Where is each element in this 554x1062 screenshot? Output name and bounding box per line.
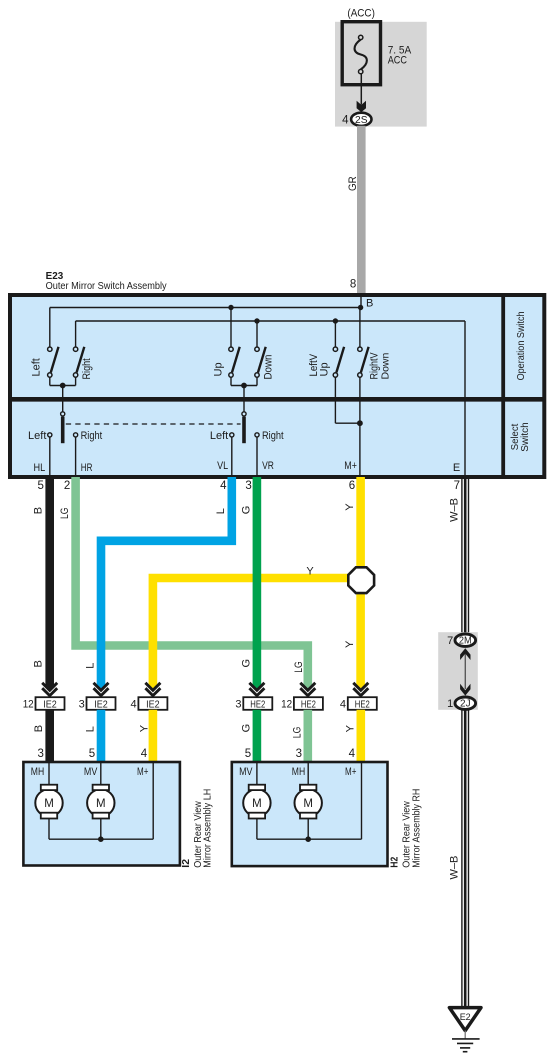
splice octagon <box>348 567 374 593</box>
svg-text:L: L <box>84 726 96 732</box>
pin name HL <box>34 462 46 474</box>
svg-text:IE2: IE2 <box>94 698 108 710</box>
svg-text:IE2: IE2 <box>146 698 160 710</box>
svg-text:12: 12 <box>23 699 34 711</box>
switch Left <box>30 347 58 377</box>
stub pin 5 <box>89 748 95 760</box>
pin 8 <box>350 278 356 290</box>
svg-text:MH: MH <box>292 766 305 778</box>
wire label B lower <box>33 660 45 667</box>
stub pin 5 right <box>245 748 251 760</box>
wire E pin from bus 2 <box>464 321 466 475</box>
label Select Switch <box>510 422 531 452</box>
wire label L upper <box>215 508 227 514</box>
pin name VL <box>217 460 228 472</box>
junction wire 2M to 2J <box>460 648 470 695</box>
connector HE2 c <box>340 697 377 710</box>
svg-text:LG: LG <box>59 508 71 520</box>
contact Left (VL) <box>210 430 234 475</box>
bus wire 1 <box>50 307 361 309</box>
pin name HR <box>81 462 93 474</box>
motor M vertical RH <box>243 785 270 819</box>
svg-text:3: 3 <box>37 748 43 760</box>
join Left/Right bottoms <box>50 377 76 412</box>
svg-text:8: 8 <box>350 278 356 290</box>
motor M vertical LH <box>87 785 114 819</box>
svg-text:M: M <box>44 798 54 810</box>
svg-text:2M: 2M <box>459 636 472 647</box>
svg-text:5: 5 <box>37 480 43 492</box>
svg-text:M: M <box>96 798 106 810</box>
svg-text:Mirror Assembly RH: Mirror Assembly RH <box>410 789 422 868</box>
svg-text:LG: LG <box>293 661 305 673</box>
switch assembly E23 label <box>46 270 168 292</box>
svg-text:4: 4 <box>342 114 349 126</box>
svg-text:M+: M+ <box>345 766 356 778</box>
svg-text:ACC: ACC <box>388 54 407 66</box>
connector arrow IE2 pin12 <box>42 683 57 696</box>
svg-text:Mirror Assembly LH: Mirror Assembly LH <box>202 789 214 868</box>
stub label Y left <box>139 724 151 732</box>
connector IE2 c <box>130 697 167 710</box>
svg-text:I2: I2 <box>180 859 192 868</box>
terminal M+ (RH) <box>345 766 356 778</box>
bus wire 2 <box>76 320 465 322</box>
label I2 <box>180 859 192 868</box>
connector arrow HE2 pin12 <box>300 683 315 696</box>
stub label Y right <box>344 724 356 732</box>
connector IE2 b <box>79 697 116 710</box>
pin number 2 <box>64 480 70 492</box>
connector arrow IE2 pin3 <box>94 683 109 696</box>
svg-text:Left: Left <box>30 358 42 376</box>
fuse 7.5A ACC <box>342 22 412 85</box>
svg-text:VL: VL <box>217 460 228 472</box>
node B entry <box>361 295 373 310</box>
wire label Y upper <box>344 503 356 511</box>
contact Right (VR) <box>255 430 284 475</box>
svg-text:MV: MV <box>84 766 98 778</box>
svg-text:IE2: IE2 <box>43 698 57 710</box>
connector 2S <box>351 113 371 126</box>
drop wires to switches <box>50 308 360 348</box>
arrow into 2S <box>357 101 366 112</box>
stub label B <box>33 725 45 732</box>
pin name M+ <box>344 460 357 472</box>
svg-text:HE2: HE2 <box>301 698 316 710</box>
svg-text:Right: Right <box>81 358 93 379</box>
svg-text:B: B <box>366 298 373 310</box>
svg-text:W–B: W–B <box>448 498 460 522</box>
svg-text:4: 4 <box>130 699 136 711</box>
svg-text:3: 3 <box>296 748 302 760</box>
connector IE2 a <box>23 697 65 710</box>
wire RightV bottom to M+ pin <box>359 377 361 475</box>
wire label L lower <box>84 663 96 669</box>
wire B (HL to IE2) <box>45 477 54 691</box>
stub label G <box>240 724 252 733</box>
pin name E <box>453 462 460 474</box>
svg-text:M: M <box>252 798 262 810</box>
switch Right <box>73 347 93 380</box>
fuse block background <box>335 22 427 127</box>
svg-text:B: B <box>33 725 45 732</box>
wire label LG upper <box>59 508 71 520</box>
wire label W-B lower <box>448 856 460 880</box>
contact Right (HR) <box>74 430 103 475</box>
internal wires LH <box>49 762 153 842</box>
pin number 3 <box>245 480 251 492</box>
svg-text:Y: Y <box>306 566 314 578</box>
svg-text:Operation Switch: Operation Switch <box>516 311 527 380</box>
connector 2M/2J background <box>438 632 478 710</box>
connector 2J <box>447 697 475 710</box>
join LeftV bottom to M+ line <box>335 377 362 426</box>
outer mirror switch assembly box <box>8 295 546 477</box>
svg-text:W–B: W–B <box>448 856 460 880</box>
pin number 7 <box>454 480 460 492</box>
select lever left <box>61 412 65 443</box>
svg-text:G: G <box>240 506 252 515</box>
svg-text:HE2: HE2 <box>250 698 265 710</box>
stub wire LG <box>303 710 312 762</box>
ground E2 <box>449 1008 481 1039</box>
svg-text:GR: GR <box>347 176 359 191</box>
pin 4 <box>342 114 349 126</box>
svg-text:1: 1 <box>447 698 453 710</box>
connector arrow HE2 pin4 <box>353 683 368 696</box>
wire label B upper <box>33 507 45 514</box>
stub label LG <box>292 727 304 739</box>
svg-text:MV: MV <box>239 766 253 778</box>
pin number 4 <box>220 480 227 492</box>
svg-text:3: 3 <box>79 699 85 711</box>
svg-text:Right: Right <box>81 430 103 442</box>
motor M horizontal LH <box>35 785 62 819</box>
terminal MV (RH) <box>239 766 253 778</box>
svg-text:E2: E2 <box>460 1012 471 1023</box>
stub wire Y right <box>356 710 365 762</box>
stub wire L <box>97 710 106 762</box>
contact Left (HL) <box>28 430 52 475</box>
terminal MV (LH) <box>84 766 98 778</box>
wire W-B lower <box>462 710 469 1007</box>
wire label Y horizontal <box>306 566 314 578</box>
svg-text:7: 7 <box>454 480 460 492</box>
svg-text:Outer Mirror Switch Assembly: Outer Mirror Switch Assembly <box>46 280 168 292</box>
svg-text:7: 7 <box>447 635 453 647</box>
mechanical link dashed <box>66 423 241 425</box>
svg-text:Down: Down <box>263 355 275 380</box>
svg-text:E: E <box>453 462 460 474</box>
wire LG (HR to HE2) <box>76 477 313 691</box>
stub wire B <box>45 710 54 762</box>
svg-text:LG: LG <box>292 727 304 739</box>
wire label G lower <box>240 659 252 668</box>
svg-text:Left: Left <box>210 430 228 442</box>
stub pin 4 right <box>349 748 356 760</box>
wire W-B (E to ground) <box>462 479 469 635</box>
terminal M+ (LH) <box>137 766 148 778</box>
svg-text:Up: Up <box>212 362 224 376</box>
svg-text:Y: Y <box>344 724 356 732</box>
mirror assembly LH box <box>23 762 180 866</box>
wire Y horizontal branch to IE2 <box>149 578 361 691</box>
wire Y (M+ to HE2) <box>356 477 365 691</box>
mirror assembly RH box <box>232 762 388 866</box>
stub wire Y left <box>149 710 158 762</box>
connector HE2 a <box>235 697 272 710</box>
terminal MH (LH) <box>31 766 44 778</box>
wire GR <box>347 126 366 295</box>
svg-text:HL: HL <box>34 462 46 474</box>
svg-text:H2: H2 <box>389 857 401 868</box>
switch Up <box>212 347 239 377</box>
svg-text:5: 5 <box>89 748 95 760</box>
svg-text:G: G <box>240 659 252 668</box>
svg-text:MH: MH <box>31 766 44 778</box>
label H2 <box>389 857 401 868</box>
wire label G upper <box>240 506 252 515</box>
switch Down <box>255 347 275 380</box>
switch LeftV/Up <box>308 347 344 377</box>
svg-text:M: M <box>303 798 313 810</box>
svg-text:Y: Y <box>344 503 356 511</box>
svg-text:M+: M+ <box>344 460 357 472</box>
label Operation Switch <box>516 311 527 380</box>
wire label LG lower <box>293 661 305 673</box>
select lever right <box>242 412 246 443</box>
switch RightV/Down <box>358 347 392 380</box>
pin name VR <box>262 460 274 472</box>
svg-text:HR: HR <box>81 462 93 474</box>
svg-text:3: 3 <box>235 699 241 711</box>
connector arrow IE2 pin4 <box>145 683 160 696</box>
svg-text:2: 2 <box>64 480 70 492</box>
stub label L <box>84 726 96 732</box>
svg-text:HE2: HE2 <box>355 698 370 710</box>
svg-text:Up: Up <box>319 362 331 376</box>
wire label Y lower <box>344 640 356 648</box>
svg-text:4: 4 <box>349 748 356 760</box>
join Up/Down bottoms <box>231 377 257 412</box>
label Outer Rear View Mirror Assembly LH <box>192 789 214 868</box>
svg-text:3: 3 <box>245 480 251 492</box>
svg-text:Down: Down <box>380 352 392 379</box>
svg-text:B: B <box>33 507 45 514</box>
svg-text:4: 4 <box>141 748 148 760</box>
svg-text:L: L <box>84 663 96 669</box>
wire label W-B upper <box>448 498 460 522</box>
svg-text:Y: Y <box>139 724 151 732</box>
svg-text:L: L <box>215 508 227 514</box>
svg-text:(ACC): (ACC) <box>347 8 375 20</box>
svg-text:Left: Left <box>28 430 46 442</box>
wire G (VR to HE2) <box>253 477 262 691</box>
motor M horizontal RH <box>295 785 322 819</box>
svg-text:VR: VR <box>262 460 274 472</box>
svg-text:Switch: Switch <box>520 422 531 452</box>
pin number 6 <box>349 480 355 492</box>
internal wires RH <box>257 762 362 842</box>
svg-text:6: 6 <box>349 480 355 492</box>
stub pin 4 <box>141 748 148 760</box>
svg-text:2J: 2J <box>460 699 471 710</box>
label Outer Rear View Mirror Assembly RH <box>400 789 422 868</box>
wire fuse to connector 2S <box>360 74 362 105</box>
connector arrow HE2 pin3 <box>249 683 264 696</box>
stub pin 3 right <box>296 748 302 760</box>
svg-text:Right: Right <box>262 430 284 442</box>
svg-text:M+: M+ <box>137 766 148 778</box>
stub wire G <box>253 710 262 762</box>
svg-text:12: 12 <box>281 699 292 711</box>
svg-text:Y: Y <box>344 640 356 648</box>
junction dots on buses <box>228 305 363 324</box>
connector HE2 b <box>281 697 323 710</box>
svg-text:2S: 2S <box>355 115 368 126</box>
svg-text:4: 4 <box>340 699 346 711</box>
svg-text:4: 4 <box>220 480 227 492</box>
terminal MH (RH) <box>292 766 305 778</box>
ground hatching <box>452 1039 480 1052</box>
pin number 5 <box>37 480 43 492</box>
svg-text:B: B <box>33 660 45 667</box>
wire L (VL to IE2) <box>97 477 232 691</box>
svg-text:5: 5 <box>245 748 251 760</box>
label (ACC) <box>347 8 375 20</box>
stub pin 3 <box>37 748 43 760</box>
svg-text:G: G <box>240 724 252 733</box>
connector 2M <box>447 634 475 647</box>
